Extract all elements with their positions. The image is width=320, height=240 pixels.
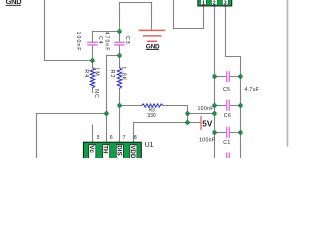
svg-text:Vc: Vc (88, 145, 95, 153)
svg-text:100nF: 100nF (198, 106, 214, 112)
node C1 right (239, 131, 243, 135)
wire drop from R3 (187, 106, 189, 123)
resistor R3 (142, 104, 164, 107)
svg-text:1.8K: 1.8K (121, 66, 127, 81)
wire C4 top to node (93, 31, 120, 33)
wire C1 right lead (230, 132, 241, 134)
node C1 left (213, 131, 217, 135)
svg-text:C6: C6 (224, 113, 231, 119)
supply 5V bar (200, 116, 202, 130)
connector J top (198, 0, 232, 7)
wire C6 right lead (230, 105, 241, 107)
wire connector pin 2 column (214, 6, 216, 158)
resistor R4 (90, 68, 94, 89)
frame border right (287, 0, 289, 146)
node C4/C3 top (118, 30, 122, 34)
svg-text:470nF: 470nF (103, 32, 109, 52)
svg-text:C4: C4 (97, 36, 103, 45)
wire C5 right lead (230, 76, 241, 78)
wire R3 right (163, 105, 188, 107)
svg-text:6: 6 (110, 135, 113, 141)
ground symbol GND (139, 30, 166, 41)
svg-text:C3: C3 (124, 36, 130, 45)
svg-text:100nF: 100nF (199, 137, 215, 143)
svg-text:330: 330 (147, 113, 156, 119)
node C5 left (213, 75, 217, 79)
capacitor C5 (227, 71, 230, 82)
svg-text:C5: C5 (223, 87, 230, 93)
svg-text:U1: U1 (145, 142, 154, 149)
svg-text:VDD: VDD (129, 145, 136, 158)
IC U1 pin header (83, 135, 141, 160)
wire TH junction to left (37, 113, 107, 115)
wire C4 bottom lead (92, 45, 94, 60)
svg-text:1M: 1M (93, 67, 99, 76)
wire pin 8 vertical (133, 123, 135, 143)
wire top horizontal to GND symbol (120, 2, 152, 4)
wire C1 left lead (215, 132, 227, 134)
capacitor C6 (227, 100, 230, 111)
svg-text:DIS: DIS (115, 145, 122, 156)
wire connector pin 3 down (225, 6, 227, 57)
wire right column down (240, 57, 242, 159)
wire C6 left lead (215, 105, 227, 107)
node TH (105, 112, 109, 116)
net label GND top left (6, 0, 23, 6)
wire C3 bottom lead to junction (119, 45, 121, 67)
wire dot A to R3 (120, 105, 142, 107)
wire node E to node F (188, 113, 215, 115)
wire pin 5 stub (92, 125, 94, 142)
wire GND net left vertical (44, 0, 46, 61)
wire R4 bottom NC stub (92, 88, 94, 92)
wire pin 8 horizontal VDD (134, 122, 188, 124)
wire connector pin 1 down (203, 6, 205, 29)
node C6 right (239, 104, 243, 108)
capacitor C2 bottom cut off (227, 153, 230, 159)
wire C4 top lead (92, 32, 94, 43)
svg-text:5V: 5V (202, 120, 213, 129)
svg-text:NC: NC (93, 89, 99, 99)
wire left drop to bottom (36, 114, 38, 159)
resistor R2 (117, 68, 121, 89)
svg-text:8: 8 (134, 135, 137, 141)
ground symbol label (146, 43, 160, 50)
node F (213, 112, 217, 116)
wire junction to left (107, 55, 120, 57)
wire GND symbol stub (151, 3, 153, 31)
node VDD/5V (186, 121, 190, 125)
wire pin 3 jog right (226, 56, 241, 58)
wire vertical TH column (106, 56, 108, 143)
node DIS (118, 104, 122, 108)
svg-text:3: 3 (224, 1, 227, 7)
capacitor C3 (114, 42, 125, 45)
wire horizontal to C4 bottom (45, 60, 93, 62)
wire R4 top lead (92, 61, 94, 68)
capacitor C1 (227, 127, 230, 138)
svg-text:5: 5 (97, 135, 100, 141)
junction dots (91, 30, 243, 135)
wire pin 1 horizontal (174, 28, 204, 30)
wire C5 left lead (215, 76, 227, 78)
svg-text:TH: TH (102, 145, 109, 154)
wire R2 bottom lead / pin 7 (119, 89, 121, 143)
node C5 right (239, 75, 243, 79)
svg-text:R2: R2 (109, 70, 115, 79)
svg-text:4.7uF: 4.7uF (245, 87, 260, 93)
svg-text:2: 2 (213, 1, 216, 7)
svg-text:100nF: 100nF (75, 32, 81, 52)
svg-text:C1: C1 (223, 140, 230, 146)
wire C3 top lead and riser (119, 3, 121, 43)
svg-text:R4: R4 (83, 69, 89, 78)
node E (186, 112, 190, 116)
node C4 bottom (91, 59, 95, 63)
capacitor C4 (87, 42, 98, 45)
node C6 left (213, 104, 217, 108)
node C3 bottom (118, 54, 122, 58)
wire 5V tap (188, 122, 201, 124)
svg-text:7: 7 (123, 135, 126, 141)
svg-text:1: 1 (202, 1, 205, 7)
wire pin 1 riser to top (173, 0, 175, 29)
